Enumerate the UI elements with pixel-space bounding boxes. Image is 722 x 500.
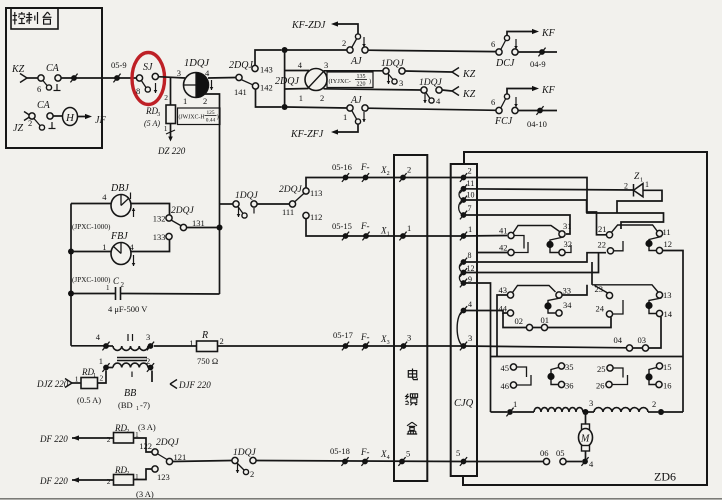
- contact 2DQJ 141-142-143: [229, 60, 273, 97]
- contact 12: [656, 239, 672, 254]
- jumper arc terminals 11-10: [459, 189, 464, 200]
- wire DJZ 220 input: [36, 379, 81, 390]
- wire pin2 DJF 220: [152, 371, 211, 391]
- svg-text:34: 34: [563, 300, 572, 310]
- wire bus to 2DQJ coil pin1: [285, 88, 309, 91]
- svg-text:2: 2: [107, 435, 111, 444]
- svg-text:131: 131: [192, 218, 205, 228]
- svg-text:133: 133: [153, 232, 166, 242]
- svg-text:2: 2: [203, 96, 207, 106]
- wire fuse to contact 122: [134, 438, 152, 452]
- wire row 05-17: [218, 330, 464, 350]
- svg-text:4 μF-500 V: 4 μF-500 V: [108, 304, 148, 314]
- svg-text:KF-ZDJ: KF-ZDJ: [291, 20, 326, 31]
- node 2 on coil row: [652, 399, 683, 415]
- svg-text:113: 113: [310, 188, 322, 198]
- relay DBJ (JPXC-1000): [71, 183, 135, 231]
- wire 03 up to contact 14: [649, 317, 661, 348]
- wire 2DQJ pin3 to 1DQJ contact a: [324, 70, 384, 72]
- svg-text:2: 2: [146, 356, 150, 366]
- fuse RD2 lower (3A): [107, 465, 154, 499]
- svg-text:2DQJ: 2DQJ: [156, 438, 179, 448]
- svg-text:(3 A): (3 A): [138, 422, 156, 432]
- wire 2DQJ pin2 to 1DQJ contact b: [324, 89, 422, 90]
- closed contact bar 13-14: [645, 298, 661, 314]
- terminal 10 on CJQ: [460, 191, 475, 205]
- svg-text:DZ 220: DZ 220: [157, 146, 186, 156]
- wire to KF-ZDJ: [291, 20, 358, 34]
- jumper arc terminals 8-12: [459, 262, 463, 273]
- svg-text:DJF 220: DJF 220: [178, 380, 211, 390]
- svg-text:132: 132: [153, 214, 166, 224]
- terminal 5 on CJQ: [456, 448, 467, 466]
- wire terminal 12 up to contact 22: [464, 254, 599, 273]
- svg-text:12: 12: [664, 239, 673, 249]
- svg-text:AJ: AJ: [350, 95, 362, 106]
- svg-text:750 Ω: 750 Ω: [197, 356, 218, 366]
- svg-text:14: 14: [664, 309, 673, 319]
- contact 2DQJ 111-112-113: [279, 185, 322, 222]
- bridge 23 to 13: [592, 285, 658, 292]
- svg-text:F-: F-: [360, 162, 370, 172]
- svg-text:2: 2: [126, 471, 129, 477]
- label box JWJXC-H 125/0.44: [178, 108, 221, 125]
- closed contact bar 11-12: [645, 237, 661, 251]
- terminal X1 on cable box: [399, 223, 411, 240]
- svg-text:25: 25: [597, 364, 606, 374]
- svg-text:2: 2: [652, 399, 656, 409]
- svg-text:1DQJ: 1DQJ: [235, 191, 258, 201]
- svg-text:141: 141: [234, 87, 247, 97]
- closed contact bar 31-32: [546, 237, 563, 253]
- contact AJ (top) terminal 2: [342, 34, 368, 67]
- wire FCJ to KF (bottom): [507, 85, 556, 96]
- contact 46: [501, 375, 532, 391]
- terminal 2 on CJQ: [460, 166, 472, 182]
- svg-text:(0.5 A): (0.5 A): [77, 395, 101, 405]
- wire DZ 220 lead: [157, 124, 186, 157]
- bridge 41 to 31: [513, 226, 560, 234]
- svg-text:8: 8: [468, 251, 472, 260]
- svg-text:2: 2: [624, 182, 628, 191]
- svg-text:(JPXC-1000): (JPXC-1000): [72, 276, 111, 284]
- svg-text:2DQJ: 2DQJ: [171, 206, 194, 216]
- label box IYJXC-135/220: [327, 72, 373, 88]
- svg-text:06: 06: [540, 448, 549, 458]
- contact 03: [633, 335, 649, 351]
- svg-text:FBJ: FBJ: [110, 231, 128, 242]
- svg-text:1: 1: [93, 373, 96, 379]
- svg-text:45: 45: [501, 363, 510, 373]
- svg-text:KF: KF: [541, 85, 556, 96]
- contact CA (KZ row) with terminals 6 and earth: [37, 63, 61, 94]
- wire terminal 2 to contact 21: [464, 178, 664, 230]
- svg-text:05-16: 05-16: [332, 162, 352, 172]
- svg-text:(JPXC-1000): (JPXC-1000): [72, 223, 111, 231]
- svg-text:DJZ 220: DJZ 220: [36, 379, 69, 389]
- wire terminal 1 to contact 41: [464, 235, 508, 238]
- svg-text:KZ: KZ: [462, 89, 476, 100]
- svg-text:2DQJ: 2DQJ: [229, 60, 253, 71]
- contact 25: [597, 364, 623, 378]
- terminal X3 on cable box: [400, 333, 411, 351]
- svg-text:3: 3: [324, 60, 328, 70]
- stub contact 42 comb: [514, 242, 528, 253]
- contact 36: [558, 381, 573, 391]
- wire SJ to 1DQJ coil: [158, 77, 185, 78]
- wire DF 220 (upper) with arrow: [39, 434, 114, 444]
- terminal X2 on cable box: [399, 165, 411, 182]
- wire fuse to contact 123: [134, 469, 152, 480]
- contact 06: [540, 448, 550, 465]
- svg-text:2: 2: [220, 336, 224, 346]
- svg-text:1: 1: [645, 180, 649, 189]
- svg-text:2: 2: [407, 165, 411, 175]
- svg-text:DF 220: DF 220: [39, 434, 68, 444]
- wire 142 down to AJ row: [256, 89, 288, 110]
- svg-text:44: 44: [499, 304, 508, 314]
- svg-text:3: 3: [407, 333, 411, 343]
- svg-text:F-: F-: [360, 221, 370, 231]
- svg-text:4: 4: [387, 455, 390, 461]
- wire 1DQJ pin2 down: [204, 94, 220, 204]
- relay coil 1DQJ (half filled): [177, 58, 214, 106]
- svg-text:220: 220: [357, 82, 366, 88]
- svg-text:05-15: 05-15: [332, 221, 352, 231]
- svg-text:42: 42: [499, 243, 508, 253]
- svg-text:(BD: (BD: [118, 400, 133, 410]
- terminal 4 on CJQ: [460, 300, 472, 315]
- transformer BB core: [117, 358, 147, 361]
- svg-text:11: 11: [663, 227, 671, 237]
- svg-text:AJ: AJ: [350, 56, 362, 67]
- motor field coil 2: [588, 408, 658, 412]
- label BB BD1-7: [118, 388, 150, 412]
- transformer BB primary winding: [96, 332, 154, 350]
- svg-text:05: 05: [556, 448, 565, 458]
- wire FCJ output 04-10: [518, 106, 557, 129]
- wire DF 220 (lower) with arrow: [39, 476, 114, 486]
- node 3 on coil row: [583, 398, 594, 415]
- svg-text:112: 112: [310, 212, 322, 222]
- contact SJ terminal 8: [136, 62, 158, 96]
- svg-text:KF-ZFJ: KF-ZFJ: [290, 129, 324, 140]
- contact 32: [559, 239, 572, 256]
- wire row 05-18: [256, 446, 464, 466]
- svg-text:5: 5: [406, 449, 410, 459]
- wire bus dot to AJ contact: [287, 49, 347, 51]
- stub contact 22 comb: [614, 241, 623, 251]
- svg-text:05-17: 05-17: [333, 330, 353, 340]
- motor coil row left: [491, 399, 518, 416]
- transformer BB secondary winding: [99, 356, 154, 377]
- svg-text:6: 6: [37, 84, 41, 94]
- svg-text:04: 04: [614, 335, 623, 345]
- contact 15: [656, 362, 671, 372]
- svg-text:1: 1: [640, 177, 643, 184]
- resistor R 750 ohm: [189, 330, 224, 366]
- svg-text:2: 2: [468, 166, 472, 176]
- closed contact bar 15-16: [645, 368, 656, 385]
- svg-text:2: 2: [320, 93, 324, 103]
- svg-text:2DQJ: 2DQJ: [275, 76, 299, 87]
- wire pin1 to fuse RD1: [98, 371, 106, 384]
- contact 31: [559, 221, 572, 237]
- wire 131 to bus: [187, 227, 218, 229]
- svg-text:1: 1: [387, 232, 390, 238]
- wire 143 up to AJ row: [255, 47, 288, 66]
- svg-text:1: 1: [102, 242, 106, 252]
- svg-text:(3 A): (3 A): [136, 489, 154, 499]
- contact 42: [478, 243, 514, 256]
- svg-text:1: 1: [99, 356, 103, 366]
- wire terminal 10 to contact 21: [464, 200, 607, 235]
- contact 1DQJ a (KZ feed, terminal 3): [381, 59, 405, 88]
- jumper arc terminals 12-9: [459, 273, 463, 284]
- contact DCJ terminal 6: [491, 35, 518, 69]
- wire DCJ to KF (top): [507, 28, 556, 39]
- svg-text:1: 1: [513, 399, 517, 409]
- svg-text:122: 122: [139, 441, 152, 451]
- contact 05: [556, 448, 566, 465]
- wire FBJ to contact 133: [131, 240, 170, 252]
- svg-text:43: 43: [499, 285, 508, 295]
- svg-text:JF: JF: [95, 115, 106, 126]
- relay FBJ (JPXC-1000): [71, 231, 135, 284]
- svg-text:): ): [217, 114, 219, 121]
- svg-text:2DQJ: 2DQJ: [279, 185, 302, 195]
- svg-text:6: 6: [491, 39, 495, 49]
- svg-text:46: 46: [501, 381, 510, 391]
- svg-text:36: 36: [565, 381, 574, 391]
- terminal 12 on CJQ: [460, 264, 475, 277]
- svg-text:16: 16: [663, 381, 672, 391]
- svg-text:F-: F-: [360, 447, 370, 457]
- svg-text:35: 35: [565, 362, 574, 372]
- arrow to JF: [78, 114, 107, 126]
- wire 33 to bridge: [562, 285, 587, 295]
- svg-text:03: 03: [638, 335, 647, 345]
- svg-text:05-9: 05-9: [111, 60, 127, 70]
- terminal 9 on CJQ: [460, 275, 472, 287]
- svg-text:KZ: KZ: [11, 64, 25, 75]
- contact FCJ terminal 6: [491, 94, 518, 127]
- contact 24: [596, 300, 624, 317]
- svg-text:31: 31: [563, 221, 572, 231]
- contact 14: [656, 309, 672, 319]
- svg-text:22: 22: [598, 240, 607, 250]
- jumper arc terminals 10-7: [459, 200, 464, 215]
- wire 113 to row 05-16: [306, 178, 343, 189]
- terminal 3 on CJQ: [460, 333, 472, 350]
- relay coil 2DQJ (IYJXC-135/220): [275, 60, 328, 103]
- svg-text:24: 24: [596, 304, 605, 314]
- svg-text:2: 2: [126, 429, 129, 435]
- wire terminal 7 to contact 31: [464, 215, 571, 234]
- wire 43 to lower bus: [497, 295, 508, 357]
- svg-text:13: 13: [663, 290, 672, 300]
- svg-text:41: 41: [499, 226, 508, 236]
- svg-text:FCJ: FCJ: [494, 116, 513, 127]
- contact 1DQJ (bottom row): [232, 448, 257, 479]
- node KZ wire start: [11, 64, 38, 83]
- wire 121 to 1DQJ contact: [173, 461, 233, 462]
- svg-text:4: 4: [468, 300, 472, 309]
- closed contact bar 35-36: [547, 368, 558, 385]
- switch machine ZD6 outline: [463, 152, 707, 485]
- svg-text:15: 15: [663, 362, 672, 372]
- terminal X4 on cable box: [398, 449, 410, 466]
- svg-text:21: 21: [598, 224, 607, 234]
- svg-text:1: 1: [299, 93, 303, 103]
- svg-text:BB: BB: [124, 388, 136, 399]
- wire KZ row inside console: [61, 74, 102, 83]
- contacts 02 and 01: [515, 315, 612, 331]
- capacitor C2 4uF-500V: [71, 276, 148, 314]
- svg-text:02: 02: [515, 316, 524, 326]
- contact 43: [499, 285, 514, 298]
- contact 33: [556, 286, 571, 299]
- svg-text:ZD6: ZD6: [654, 470, 676, 484]
- svg-text:): ): [369, 78, 371, 85]
- svg-text:(5 A): (5 A): [144, 119, 160, 128]
- wire to 2DQJ common: [220, 203, 290, 205]
- junction box CJQ: [451, 164, 477, 476]
- wire bus dot to AJ contact (lower): [287, 107, 347, 108]
- svg-text:2: 2: [107, 477, 111, 486]
- control console box (kong zhi tai): [6, 8, 102, 148]
- svg-text:CA: CA: [46, 63, 60, 74]
- wire 05-9 segment: [102, 60, 137, 82]
- wire bus to 2DQJ coil pin4: [285, 70, 309, 72]
- svg-text:10: 10: [467, 191, 475, 200]
- wire transformer to R: [154, 345, 197, 347]
- stub contact 41 comb: [514, 236, 524, 249]
- svg-text:3: 3: [468, 333, 472, 343]
- wire 112 to row 05-15: [306, 219, 343, 237]
- svg-text:CJQ: CJQ: [454, 398, 474, 409]
- wire terminal 4 to contact 44 and 02: [464, 311, 527, 328]
- svg-text:-7): -7): [140, 400, 150, 410]
- svg-text:2: 2: [28, 118, 32, 128]
- terminal 11 on CJQ: [460, 179, 474, 193]
- svg-text:3: 3: [399, 78, 403, 88]
- svg-text:142: 142: [260, 83, 273, 93]
- contact 44: [499, 304, 514, 317]
- terminal 7 on CJQ: [460, 204, 472, 219]
- contact 26: [596, 375, 628, 391]
- closed contact bar 33-34: [544, 298, 560, 313]
- svg-text:111: 111: [282, 207, 294, 217]
- contact 2DQJ 131-132-133: [153, 206, 205, 242]
- wire diode to contact 11: [617, 190, 662, 213]
- svg-text:1: 1: [407, 223, 411, 233]
- contact AJ (bottom) terminal 1: [343, 95, 368, 124]
- contact 23: [595, 284, 613, 299]
- svg-text:KF: KF: [541, 28, 556, 39]
- contact 2DQJ 121-122-123: [139, 438, 186, 482]
- wire vertical bus at 285: [284, 50, 286, 107]
- wire row 05-15: [332, 221, 464, 240]
- contact 04: [614, 335, 633, 351]
- svg-text:SJ: SJ: [143, 62, 153, 73]
- contact 35: [558, 362, 573, 372]
- svg-text:2: 2: [342, 38, 346, 48]
- svg-text:2: 2: [121, 281, 125, 289]
- wire terminal 9 to motor loop: [464, 283, 491, 412]
- svg-text:05-18: 05-18: [330, 446, 350, 456]
- bridge 43 to 33: [513, 286, 556, 293]
- svg-text:5: 5: [456, 448, 460, 458]
- contact 21: [598, 224, 613, 238]
- wire contact 12 to motor coil 2: [663, 251, 683, 413]
- wire AJ to FCJ: [368, 108, 496, 110]
- motor field coil 1: [513, 408, 583, 412]
- svg-text:6: 6: [491, 97, 495, 107]
- lamp H: [53, 108, 78, 126]
- wire C2 branch: [121, 293, 220, 296]
- wire vertical 219.5 to mid contact: [217, 204, 223, 294]
- contact 1DQJ (mid row): [233, 191, 259, 218]
- svg-text:F-: F-: [360, 332, 370, 342]
- bridge 21 to 11: [612, 225, 658, 232]
- svg-text:123: 123: [157, 472, 170, 482]
- wire left bus: [68, 204, 74, 346]
- cable box (dian lan he): [394, 155, 427, 481]
- svg-text:3: 3: [387, 340, 390, 346]
- svg-text:1: 1: [343, 112, 347, 122]
- contact 34: [556, 300, 572, 316]
- wire lower bus: [491, 356, 684, 358]
- svg-text:8: 8: [136, 86, 140, 96]
- svg-text:M: M: [580, 434, 590, 445]
- svg-text:C: C: [113, 276, 120, 286]
- wire bus corner to transformer: [71, 345, 104, 347]
- svg-text:26: 26: [596, 381, 605, 391]
- jumper loop terminals 4-3: [457, 311, 463, 347]
- svg-text:(JWJXC-H: (JWJXC-H: [179, 114, 206, 121]
- svg-text:2: 2: [250, 469, 254, 479]
- svg-text:0.44: 0.44: [206, 118, 216, 124]
- contact 1DQJ b (KZ feed, terminal 4): [419, 78, 442, 106]
- svg-text:2: 2: [164, 93, 168, 102]
- wire to KZ (lower): [442, 87, 476, 101]
- wire AJ to DCJ: [368, 50, 496, 51]
- node JZ wire start: [13, 112, 31, 135]
- svg-text:DF 220: DF 220: [39, 476, 68, 486]
- svg-text:1: 1: [183, 96, 187, 106]
- svg-text:H: H: [65, 112, 75, 124]
- svg-text:3: 3: [589, 398, 593, 408]
- contact 45: [501, 363, 527, 377]
- fuse RD1 (0.5A): [75, 367, 104, 405]
- svg-text:(IYJXC-: (IYJXC-: [329, 78, 351, 85]
- svg-text:04-9: 04-9: [530, 59, 546, 69]
- svg-text:CA: CA: [37, 100, 51, 111]
- svg-text:04-10: 04-10: [527, 119, 547, 129]
- diode Z1: [464, 172, 650, 197]
- svg-text:1DQJ: 1DQJ: [233, 448, 256, 458]
- svg-text:11: 11: [467, 179, 475, 188]
- red highlight ellipse around SJ contact: [132, 53, 165, 105]
- svg-text:33: 33: [563, 286, 572, 296]
- terminal 8 on CJQ: [460, 251, 472, 266]
- svg-text:2: 2: [100, 374, 104, 383]
- svg-text:1: 1: [468, 224, 472, 234]
- svg-text:DBJ: DBJ: [110, 183, 129, 194]
- wire to KF-ZFJ: [290, 124, 358, 140]
- svg-text:DCJ: DCJ: [495, 58, 515, 69]
